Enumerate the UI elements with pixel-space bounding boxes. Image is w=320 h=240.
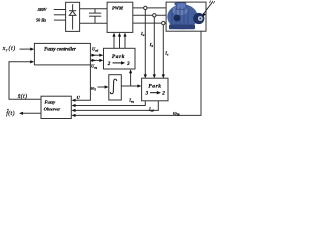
park 2-3 block bbox=[104, 48, 136, 69]
svg-text:f̂(t): f̂(t) bbox=[6, 110, 15, 117]
wire park to pwm 1 bbox=[113, 35, 115, 48]
integrator block bbox=[109, 75, 122, 100]
wire omega s arrow bbox=[98, 86, 107, 88]
rectifier block bbox=[66, 2, 80, 31]
svg-text:Park: Park bbox=[112, 54, 125, 60]
arrowhead Usq end bbox=[99, 59, 103, 62]
arrowhead theta into park23 bbox=[129, 69, 132, 73]
arrowhead U into observer bbox=[72, 99, 76, 102]
motor box bbox=[166, 2, 206, 31]
wire theta branch up bbox=[130, 72, 132, 87]
wire current tap Ib bbox=[153, 17, 155, 76]
label 3-2 bbox=[145, 91, 166, 97]
svg-text:x̂(t): x̂(t) bbox=[17, 93, 28, 100]
speed sensor arrow bbox=[202, 1, 215, 17]
PWM block bbox=[107, 2, 133, 32]
arrowhead omega m into observer bbox=[72, 114, 76, 117]
arrowhead park2 into pwm bbox=[118, 33, 121, 37]
svg-text:380V: 380V bbox=[37, 7, 48, 12]
junction node B bbox=[153, 14, 156, 17]
arrowhead xhat into controller bbox=[30, 60, 34, 63]
wire xhat feedback bbox=[9, 62, 41, 99]
svg-text:xr(t): xr(t) bbox=[2, 45, 16, 52]
svg-text:2: 2 bbox=[107, 61, 111, 67]
svg-text:3: 3 bbox=[126, 61, 130, 67]
svg-text:Fuzzy controller: Fuzzy controller bbox=[44, 48, 76, 53]
wire park to pwm 3 bbox=[124, 35, 126, 48]
wire current tap Ia bbox=[144, 10, 146, 76]
arrowhead xr into controller bbox=[30, 48, 34, 51]
svg-text:3: 3 bbox=[145, 91, 149, 97]
arrowhead Usd end bbox=[99, 54, 103, 57]
label 2-3 bbox=[107, 61, 130, 67]
motor photo bbox=[167, 2, 204, 29]
wire 3-phase input lines bbox=[54, 10, 66, 21]
svg-text:PWM: PWM bbox=[112, 5, 124, 10]
arrowhead park1 into pwm bbox=[112, 33, 115, 37]
capacitor C1 bbox=[89, 9, 101, 24]
arrowhead integrator out into park32 bbox=[137, 84, 141, 87]
wire Usq line bbox=[90, 59, 101, 61]
DC bus rails bbox=[80, 9, 108, 24]
wire Usd line bbox=[90, 54, 101, 56]
arrowhead omega s into integrator bbox=[105, 85, 109, 88]
svg-text:2: 2 bbox=[161, 91, 165, 97]
wire Isd feedback bbox=[74, 101, 158, 111]
wire phase line A bbox=[133, 7, 166, 9]
arrowhead Usq start bbox=[92, 59, 96, 62]
wire Isq feedback bbox=[74, 101, 145, 106]
wire integrator output bbox=[121, 85, 139, 87]
wire phase line B bbox=[133, 14, 166, 16]
diode D1 bbox=[69, 4, 76, 29]
fuzzy observer block bbox=[41, 96, 71, 118]
fuzzy controller block bbox=[34, 43, 90, 65]
arrowhead Usd start bbox=[92, 54, 96, 57]
label integral bbox=[110, 79, 116, 94]
wire park to pwm 2 bbox=[119, 35, 121, 48]
wire current tap Ic bbox=[162, 25, 164, 76]
arrowhead Ia into park32 bbox=[144, 74, 147, 78]
arrowhead Ib into park32 bbox=[153, 74, 156, 78]
svg-text:Observer: Observer bbox=[44, 106, 61, 111]
wire phase line C bbox=[133, 22, 166, 24]
arrowhead Ic into park32 bbox=[162, 74, 165, 78]
wire omega m feedback bbox=[74, 31, 201, 115]
arrowhead park3 into pwm bbox=[123, 33, 126, 37]
arrowhead Isq into observer bbox=[72, 104, 76, 107]
junction node C bbox=[162, 21, 165, 24]
svg-text:Fuzzy: Fuzzy bbox=[45, 99, 56, 104]
wire fhat output bbox=[22, 112, 42, 114]
svg-text:Park: Park bbox=[148, 84, 161, 90]
arrowhead fhat out bbox=[19, 112, 23, 115]
arrowhead Isd into observer bbox=[72, 109, 76, 112]
svg-text:50 Hz: 50 Hz bbox=[36, 17, 46, 22]
park 3-2 block bbox=[142, 78, 168, 101]
wire U feedback bbox=[74, 65, 90, 100]
junction node A bbox=[144, 6, 147, 9]
wire xr(t) input bbox=[20, 48, 32, 50]
